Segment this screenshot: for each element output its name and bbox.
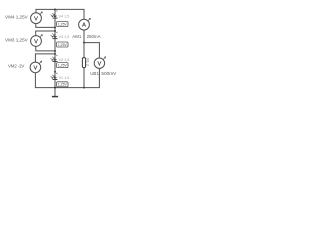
svg-text:VM2 -2V: VM2 -2V <box>8 64 24 69</box>
node (junction dot) above V4 <box>54 8 56 10</box>
wire: VM2 bottom lead joining bottom rail <box>35 68 99 87</box>
plus polarity mark of V4 <box>56 10 57 11</box>
node: UB1 branch junction <box>83 42 85 44</box>
svg-text:1,25V: 1,25V <box>58 43 68 47</box>
ground symbol at chain bottom <box>52 96 58 98</box>
resistor R1 <box>82 58 85 68</box>
wire: VM3 top lead <box>36 31 55 36</box>
node (junction dot) above V2 <box>54 53 56 55</box>
svg-text:VM3 1,25V: VM3 1,25V <box>5 37 29 42</box>
node: VM4 bottom junction <box>54 26 56 28</box>
node (junction dot) above V1 <box>54 71 56 73</box>
wire: branch to voltmeter UB1 <box>84 43 99 58</box>
svg-text:V1 1,5: V1 1,5 <box>59 76 70 80</box>
solar cell V2 (photodiode symbol, light arrows) <box>51 57 58 62</box>
wire: VM3 bottom lead <box>36 46 55 51</box>
node (junction dot) above V3 <box>54 30 56 32</box>
svg-text:R1 2: R1 2 <box>86 58 90 66</box>
solar cell V4 (photodiode symbol, light arrows) <box>51 13 58 18</box>
voltmeter UB1 <box>94 58 104 68</box>
wire: ammeter to R1 <box>83 30 85 57</box>
wire: R1 to bottom rail <box>83 68 85 88</box>
voltmeter VM2 <box>30 62 41 73</box>
plus polarity mark of V2 <box>56 55 57 56</box>
wire: VM4 bottom lead to node between V4 and V3 <box>36 24 55 28</box>
wire: main cell-chain column x=55 <box>54 9 56 96</box>
svg-text:VM4 1,25V: VM4 1,25V <box>5 15 29 20</box>
voltmeter VM3 <box>31 36 42 47</box>
node: R1 bottom junction <box>83 87 85 89</box>
value box of V2: 1,25V <box>57 63 68 68</box>
solar cell V3 (photodiode symbol, light arrows) <box>51 33 58 38</box>
svg-text:V4 1,5: V4 1,5 <box>59 15 70 19</box>
node: chain bottom / ground junction <box>54 87 56 89</box>
value box of V1: 1,25V <box>57 82 68 87</box>
svg-text:250mA: 250mA <box>87 34 101 39</box>
plus polarity mark of V1 <box>56 73 57 74</box>
svg-text:V2 1,5: V2 1,5 <box>59 58 70 62</box>
plus polarity mark of V3 <box>56 32 57 33</box>
node: VM3 bottom junction <box>54 50 56 52</box>
svg-text:1,25V: 1,25V <box>58 64 68 68</box>
value box of V3: 1,25V <box>57 42 68 47</box>
svg-text:1,25V: 1,25V <box>58 83 68 87</box>
ammeter AM1 <box>79 19 90 30</box>
wire: top rail from VM4 up-over to ammeter branch <box>36 9 84 19</box>
svg-text:1,25V: 1,25V <box>58 22 68 26</box>
solar cell V1 (photodiode symbol, light arrows) <box>51 75 58 80</box>
svg-text:UB1: UB1 <box>90 71 99 76</box>
svg-text:V3 1,5: V3 1,5 <box>59 35 70 39</box>
wire: VM2 top lead <box>35 54 55 62</box>
svg-text:AM1: AM1 <box>72 34 82 39</box>
value box of V4: 1,25V <box>57 22 68 27</box>
svg-text:500mV: 500mV <box>101 71 117 76</box>
voltmeter VM4 <box>31 13 42 24</box>
